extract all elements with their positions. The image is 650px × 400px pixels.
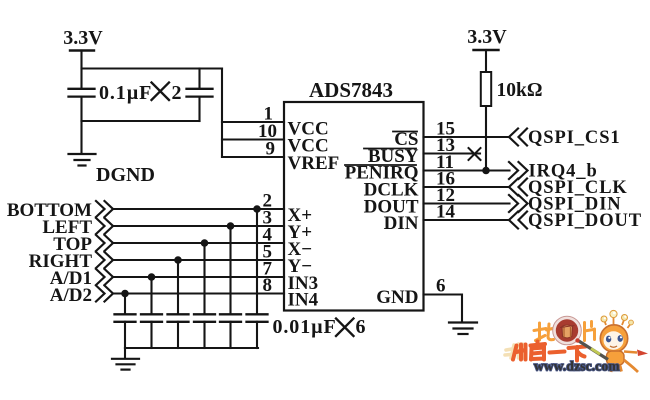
- svg-text:www.dzsc.com: www.dzsc.com: [534, 359, 620, 374]
- svg-text:6: 6: [436, 276, 446, 297]
- svg-text:IN4: IN4: [288, 290, 319, 311]
- svg-text:8: 8: [263, 275, 273, 296]
- power bar 3.3V right: [474, 49, 499, 51]
- wire pin 10: [222, 138, 284, 140]
- svg-text:10kΩ: 10kΩ: [497, 80, 543, 101]
- junction dot X+ cap: [253, 205, 261, 213]
- wire pin 6 GND: [424, 295, 463, 323]
- wire pin 9: [222, 156, 284, 158]
- connector chevrons TOP: [96, 235, 113, 251]
- watermark shadow weikuyixia: [505, 344, 523, 358]
- svg-text:0.1µF: 0.1µF: [99, 82, 152, 104]
- capacitor C3 0.01uF: [115, 314, 136, 322]
- svg-text:3.3V: 3.3V: [467, 26, 507, 48]
- svg-text:ADS7843: ADS7843: [309, 78, 393, 102]
- svg-text:DGND: DGND: [96, 164, 155, 186]
- wire caps bottom rail: [125, 347, 258, 349]
- svg-text:QSPI_DOUT: QSPI_DOUT: [528, 211, 642, 231]
- pin label PENIRQ with overline: [345, 163, 419, 184]
- wire IN4 cap drop: [124, 294, 126, 314]
- connector chevrons RIGHT: [96, 252, 113, 268]
- capacitor C4 0.01uF: [141, 314, 162, 322]
- wire X+ cap drop: [256, 209, 258, 314]
- wire C2 bottom stub: [198, 97, 200, 121]
- connector chevrons IRQ4_b: [509, 162, 528, 179]
- svg-text:0.01µF: 0.01µF: [273, 316, 337, 338]
- wire C4 bottom stub: [150, 322, 152, 348]
- pin label CS with overline: [393, 129, 419, 150]
- watermark char pian: [585, 322, 595, 341]
- wire C8 bottom stub: [256, 322, 258, 348]
- svg-text:QSPI_CS1: QSPI_CS1: [528, 128, 621, 148]
- wire C6 bottom stub: [203, 322, 205, 348]
- svg-text:VREF: VREF: [288, 153, 340, 174]
- ground analog caps: [112, 359, 139, 370]
- capacitor C2 0.1uF: [187, 89, 213, 97]
- pin label BUSY with overline: [364, 146, 419, 167]
- wire Y- cap drop: [177, 260, 179, 314]
- watermark mascot: [575, 310, 648, 372]
- svg-text:A/D2: A/D2: [50, 285, 92, 306]
- capacitor C8 0.01uF: [247, 314, 268, 322]
- wire pin 1: [222, 121, 284, 123]
- wire pin 13 BUSY: [424, 152, 481, 154]
- svg-text:2: 2: [172, 82, 182, 104]
- connector chevrons QSPI_CS1: [509, 129, 527, 146]
- junction dot PENIRQ pull-up: [482, 167, 490, 175]
- watermark char zhao: [534, 323, 555, 341]
- watermark weikuyixia text: [513, 342, 586, 361]
- junction dot Y+ cap: [227, 222, 235, 230]
- capacitor C5 0.01uF: [168, 314, 189, 322]
- connector chevrons QSPI_DIN: [509, 195, 528, 212]
- wire LEFT to pin 3: [113, 225, 284, 227]
- ground DGND: [69, 154, 96, 166]
- connector chevrons LEFT: [96, 218, 113, 234]
- wire to DGND: [80, 121, 82, 154]
- wire 3.3V to R1: [485, 50, 487, 72]
- wire pin 16 DCLK: [424, 186, 510, 188]
- svg-text:6: 6: [356, 316, 366, 338]
- svg-text:9: 9: [266, 139, 276, 160]
- junction dot X- cap: [201, 239, 209, 247]
- wire C7 bottom stub: [229, 322, 231, 348]
- wire A/D2 to pin 8: [113, 292, 284, 294]
- svg-text:14: 14: [436, 202, 456, 223]
- junction dot IN3 cap: [148, 273, 156, 281]
- connector chevrons QSPI_DOUT: [509, 212, 527, 229]
- watermark dzsc logo: [505, 310, 648, 373]
- wire C5 bottom stub: [177, 322, 179, 348]
- wire Y+ cap drop: [229, 226, 231, 314]
- svg-text:DIN: DIN: [384, 213, 419, 234]
- wire 3.3V to C1: [80, 51, 82, 89]
- capacitor C6 0.01uF: [194, 314, 215, 322]
- wire bottom rail C1-C2: [82, 120, 200, 122]
- wire RIGHT to pin 5: [113, 259, 284, 261]
- wire IN3 cap drop: [150, 277, 152, 314]
- wire pin 11 PENIRQ: [424, 169, 510, 171]
- connector chevrons A/D1: [96, 269, 113, 285]
- junction dot IN4 cap: [121, 290, 129, 298]
- wire C3 bottom stub: [124, 322, 126, 348]
- wire top rail 3.3V: [82, 67, 223, 69]
- svg-text:GND: GND: [376, 287, 418, 308]
- connector chevrons BOTTOM: [96, 201, 113, 217]
- wire TOP to pin 4: [113, 242, 284, 244]
- ground GND pin6: [449, 323, 477, 335]
- junction dot Y- cap: [174, 256, 182, 264]
- resistor R1 10k body: [481, 72, 491, 106]
- connector chevrons A/D2: [96, 286, 113, 302]
- svg-text:3.3V: 3.3V: [63, 27, 103, 49]
- capacitor C1 0.1uF: [69, 89, 95, 97]
- connector chevrons QSPI_CLK: [509, 179, 527, 196]
- wire C2 top stub: [198, 69, 200, 89]
- IC U1 ADS7843 body: [284, 102, 424, 311]
- wire rail to ground: [124, 348, 126, 358]
- wire pin 12 DOUT: [424, 202, 510, 204]
- wire pin 14 DIN: [424, 219, 510, 221]
- wire A/D1 to pin 7: [113, 276, 284, 278]
- wire BOTTOM to pin 2: [113, 208, 284, 210]
- wire X- cap drop: [203, 243, 205, 314]
- wire C1 bottom: [80, 97, 82, 121]
- wire VCC bus vertical: [221, 69, 223, 158]
- wire pin 15 CS: [424, 136, 510, 138]
- no-connect X pin 13: [469, 148, 481, 160]
- power bar 3.3V left: [70, 49, 94, 51]
- wire R1 to PENIRQ: [485, 106, 487, 171]
- capacitor C7 0.01uF: [220, 314, 241, 322]
- watermark magnifier: [553, 316, 582, 345]
